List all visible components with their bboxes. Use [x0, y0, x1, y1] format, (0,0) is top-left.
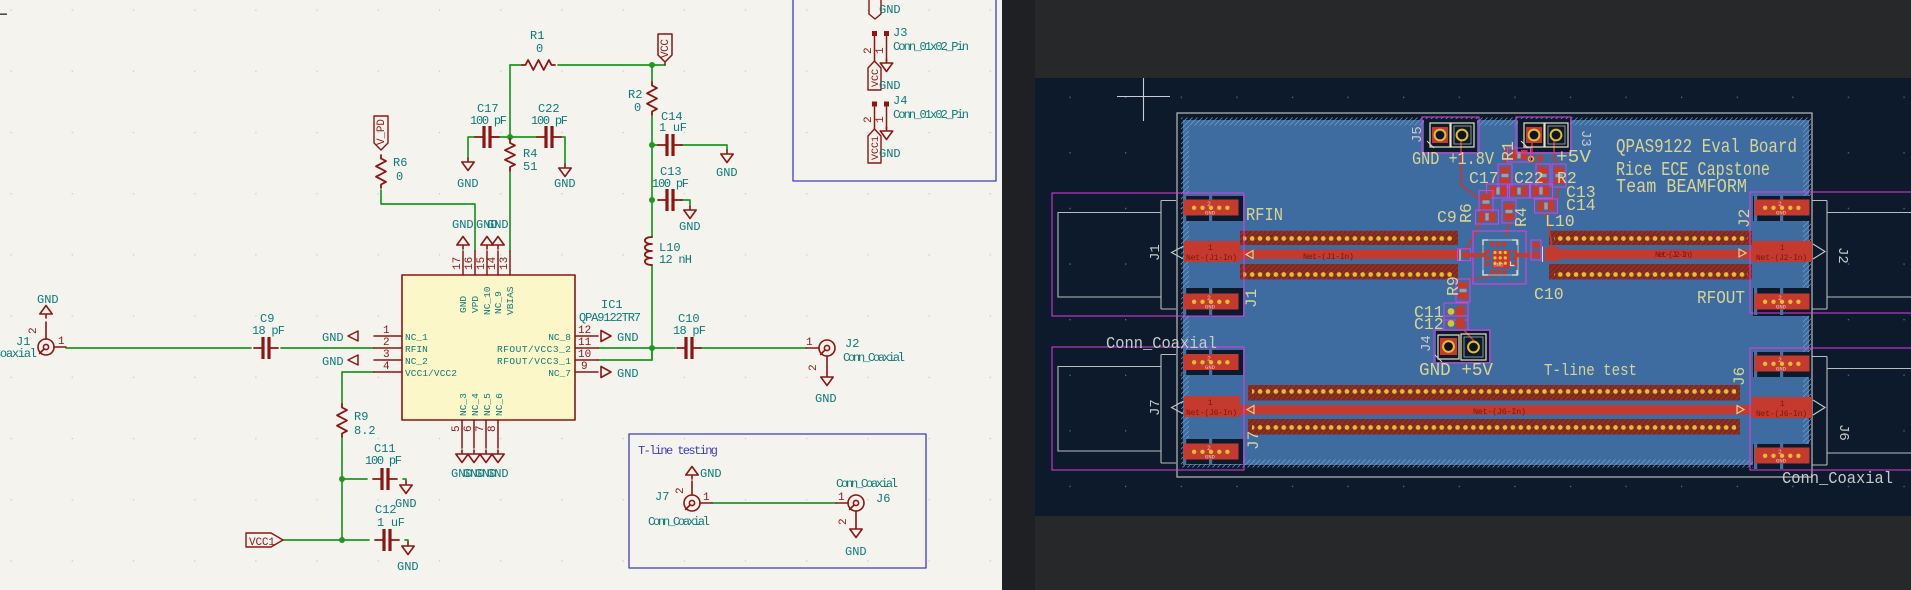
zone cutout J1 top pad [1185, 196, 1243, 221]
trace R4 to IC [1506, 220, 1509, 236]
footprint R6 [1479, 191, 1493, 214]
connector J1 [38, 339, 54, 355]
silk triangle marker T-line right [1737, 406, 1744, 414]
zone cutout J2 top pad [1753, 196, 1811, 221]
svg-text:J7: J7 [1148, 399, 1164, 416]
svg-text:J7: J7 [1245, 431, 1263, 450]
pcb bottom gray band [1035, 516, 1911, 590]
T-line via band bottom [1248, 419, 1740, 435]
wire J7 to J6 in T-line box [712, 502, 836, 504]
connector J1 signal pad [1184, 241, 1240, 262]
capacitor C10 [677, 337, 701, 359]
central IC courtyard [1473, 231, 1526, 284]
resistor R9 [337, 404, 347, 437]
junction node L10/RFOUT/C10 [649, 345, 655, 351]
svg-text:C12: C12 [1414, 315, 1444, 334]
central IC outline [1483, 240, 1518, 275]
footprint C12 [1444, 316, 1468, 330]
svg-text:GND +5V: GND +5V [1419, 361, 1493, 381]
IC output pad2 [1545, 247, 1559, 261]
IC U1 body [402, 275, 575, 420]
svg-text:L10: L10 [1545, 212, 1575, 231]
svg-text:GND: GND [458, 296, 469, 313]
svg-text:J1: J1 [1148, 244, 1164, 261]
svg-text:R6: R6 [393, 156, 407, 170]
svg-text:10: 10 [578, 349, 591, 361]
wire C12 to GND [405, 540, 408, 542]
svg-text:NC_1: NC_1 [405, 332, 428, 343]
svg-text:GND: GND [879, 3, 901, 17]
svg-text:C12: C12 [375, 503, 397, 517]
svg-text:GND +1.8V: GND +1.8V [1412, 150, 1494, 170]
IC input pad [1462, 252, 1469, 258]
wire pin11/pin10 RFOUT to C10 and J2 [598, 348, 806, 360]
RF line left via band bottom [1240, 264, 1458, 279]
svg-text:GND: GND [554, 177, 576, 191]
svg-text:J2: J2 [1834, 247, 1850, 264]
ground at C12 [402, 542, 414, 555]
svg-text:100 pF: 100 pF [531, 114, 568, 128]
wire R2 to C14 to C13 to L10 [652, 116, 727, 360]
svg-text:J3: J3 [1577, 130, 1593, 147]
svg-text:8.2: 8.2 [354, 424, 376, 438]
inductor L10 [645, 237, 652, 265]
RF line left via band top [1240, 231, 1458, 245]
svg-text:C9: C9 [1437, 208, 1457, 227]
connector J6 boss outline [1812, 357, 1911, 466]
connector J3 [875, 36, 887, 61]
svg-text:Conn_Coaxial: Conn_Coaxial [1782, 470, 1893, 489]
connector J7 boss outline [1058, 355, 1176, 464]
svg-text:GND: GND [322, 355, 344, 369]
svg-text:GND: GND [452, 218, 474, 232]
svg-text:Net-(J1-In): Net-(J1-In) [1303, 252, 1354, 262]
svg-text:GND: GND [679, 220, 701, 234]
svg-text:R1: R1 [530, 29, 544, 43]
connector J6 [848, 495, 864, 511]
connector J2 pads [1754, 194, 1810, 221]
svg-text:Conn_Coaxial: Conn_Coaxial [0, 347, 37, 361]
svg-text:GND: GND [815, 392, 837, 406]
IC bottom pins 5-8 [462, 420, 498, 448]
svg-text:RFIN: RFIN [1246, 206, 1283, 226]
svg-text:GND: GND [879, 79, 901, 93]
connector J7 courtyard [1052, 347, 1244, 470]
power flag VCC [658, 34, 672, 65]
svg-text:16: 16 [464, 257, 476, 270]
svg-text:J6: J6 [1835, 424, 1851, 441]
footprint C9 [1476, 210, 1499, 224]
svg-text:VPD: VPD [470, 296, 481, 313]
svg-text:J7: J7 [655, 490, 669, 504]
svg-text:R9: R9 [1444, 276, 1463, 296]
wire V_PD / R6 to VPD pin16 [381, 190, 475, 251]
wire pin4 VCC1/VCC2 to R9 to C11 C12 [283, 372, 374, 540]
svg-text:RFOUT/VCC3_2: RFOUT/VCC3_2 [497, 344, 571, 355]
svg-text:Conn_Coaxial: Conn_Coaxial [648, 515, 710, 529]
svg-text:C22: C22 [1514, 169, 1544, 188]
svg-text:18 pF: 18 pF [673, 324, 706, 338]
svg-text:GND: GND [1494, 262, 1505, 269]
connector J4 pin1 silk chamfer [1435, 355, 1442, 362]
IC left pins 1-4 [374, 336, 402, 372]
ground below J6 [850, 525, 862, 538]
junction node R1/C17/C22/R4 [507, 134, 513, 140]
svg-text:0: 0 [536, 42, 543, 56]
svg-text:R4: R4 [523, 147, 537, 161]
svg-text:Net-(J2-In): Net-(J2-In) [1655, 250, 1693, 260]
capacitor C11 [373, 468, 397, 490]
copper zone fill [1183, 120, 1809, 465]
resistor R6 [376, 155, 386, 188]
svg-text:Team BEAMFORM: Team BEAMFORM [1616, 176, 1747, 198]
footprint L10b [1535, 199, 1558, 213]
svg-text:NC_2: NC_2 [405, 356, 428, 367]
RF line right via band top [1549, 231, 1752, 245]
RF line right center trace [1552, 250, 1752, 260]
svg-text:Conn_Coaxial: Conn_Coaxial [836, 477, 898, 491]
trace C9 to RF line [1466, 222, 1481, 250]
svg-text:J4: J4 [1419, 335, 1435, 352]
svg-text:J5: J5 [1410, 126, 1426, 143]
svg-text:J3: J3 [893, 26, 907, 40]
connector J1 pads [1183, 194, 1239, 221]
ground below J2 [821, 373, 833, 386]
ground under C17 [462, 158, 474, 171]
svg-text:GND: GND [879, 147, 901, 161]
footprint C13 [1487, 184, 1510, 198]
IC output silk tick [1542, 247, 1544, 263]
cursor crosshair [1117, 78, 1170, 121]
ground arrows above pins 17,15,14 [457, 237, 469, 250]
svg-text:R2: R2 [628, 88, 642, 102]
ground under J3 pin1 [880, 59, 892, 72]
connector J7 signal pad [1184, 396, 1240, 417]
svg-text:V_PD: V_PD [376, 119, 388, 145]
svg-text:VBIAS: VBIAS [505, 286, 516, 315]
IC input courtyard [1458, 249, 1471, 261]
footprint R2 [1552, 164, 1566, 187]
svg-text:2: 2 [808, 364, 820, 371]
connector J7 fab bracket [1172, 401, 1184, 413]
zone cutout J6 bottom pad [1753, 444, 1811, 472]
RF line right via band bottom [1549, 264, 1752, 279]
svg-text:J6: J6 [1731, 367, 1749, 386]
svg-text:J4: J4 [893, 94, 907, 108]
svg-text:QPA9122TR7: QPA9122TR7 [579, 311, 641, 325]
svg-text:1: 1 [383, 325, 390, 337]
zone cutout J7 top pad [1185, 350, 1243, 375]
svg-text:J2: J2 [845, 337, 859, 351]
svg-text:Net-(J6-In): Net-(J6-In) [1756, 410, 1807, 419]
T-line center trace [1240, 405, 1752, 415]
ground above J7 [686, 467, 698, 480]
svg-text:1 uF: 1 uF [659, 121, 687, 135]
zone cutout J2 bottom pad [1753, 288, 1811, 316]
svg-text:RFIN: RFIN [405, 344, 428, 355]
svg-text:C17: C17 [1469, 169, 1499, 188]
svg-text:VCC1: VCC1 [249, 537, 275, 549]
board edge outline [1177, 113, 1812, 477]
trace J5 to C9/R6 [1461, 140, 1484, 202]
power flag VCC1 under J4 [868, 129, 881, 163]
connector J3 pad1 [1524, 123, 1544, 147]
T-line via band top [1248, 385, 1740, 401]
T-line via dots top [1252, 389, 1736, 398]
zone cutout J1 bottom pad [1185, 288, 1243, 316]
svg-text:7: 7 [475, 425, 487, 432]
ground at C11 [400, 481, 412, 494]
svg-text:Conn_Coaxial: Conn_Coaxial [843, 351, 905, 365]
T-line via dots bottom [1252, 423, 1736, 432]
svg-text:Conn_01x02_Pin: Conn_01x02_Pin [893, 108, 969, 122]
svg-text:1: 1 [1208, 399, 1213, 408]
svg-text:Net-(J2-In): Net-(J2-In) [1756, 254, 1807, 263]
svg-text:J6: J6 [876, 492, 890, 506]
T-line testing box [629, 434, 926, 568]
svg-text:1 uF: 1 uF [377, 516, 405, 530]
silk triangle marker right [1739, 249, 1746, 257]
window divider strip [1002, 0, 1035, 590]
footprint R9 [1456, 279, 1470, 302]
wire R1 net: drop to C17/C22 junction and VBIAS [492, 65, 537, 137]
connector J6 courtyard [1750, 348, 1911, 470]
connector J4 pad1 [1438, 335, 1459, 359]
svg-text:14: 14 [487, 256, 499, 270]
svg-text:QPAS9122 Eval Board: QPAS9122 Eval Board [1616, 136, 1797, 158]
resistor R1 [522, 60, 555, 70]
ground under C22 [559, 164, 571, 177]
trace IC to R9 [1468, 277, 1490, 280]
svg-text:Net-(J6-In): Net-(J6-In) [1186, 409, 1237, 418]
svg-text:NC_4: NC_4 [470, 393, 481, 416]
footprint C21 between IC and C10 stub [1531, 240, 1541, 260]
svg-text:R6: R6 [1457, 203, 1476, 223]
pcb navy canvas [1035, 78, 1911, 516]
connector J4 pad2 [1461, 334, 1486, 360]
ground at C14 [721, 150, 733, 163]
svg-text:2: 2 [675, 487, 687, 494]
svg-text:3: 3 [383, 349, 390, 361]
wire J1 to C9 to IC pin2 RFIN [66, 347, 374, 349]
junction node R2/C14 [649, 142, 655, 148]
schematic canvas background [0, 0, 1002, 590]
IC right pins 12-9 [575, 336, 598, 372]
connector J2 signal pad [1752, 241, 1812, 262]
zone cutout J3 [1518, 119, 1570, 152]
svg-text:GND: GND [716, 166, 738, 180]
svg-text:RFOUT: RFOUT [1697, 289, 1745, 309]
connector J2 boss outline [1812, 201, 1911, 310]
connector J2 [819, 340, 835, 356]
svg-text:4: 4 [383, 361, 390, 373]
connector J1 courtyard [1052, 193, 1244, 316]
svg-text:1: 1 [838, 492, 845, 504]
resistor R2 [647, 82, 657, 115]
svg-text:R1: R1 [1499, 141, 1518, 161]
IC input silk tick [1459, 250, 1461, 261]
capacitor C9 [254, 337, 278, 359]
central IC side pads [1485, 242, 1518, 275]
svg-text:RFOUT/VCC3_1: RFOUT/VCC3_1 [497, 356, 571, 367]
central IC pin1 L mark [1511, 262, 1515, 266]
svg-text:2: 2 [28, 327, 40, 334]
ground at C13 [684, 206, 696, 219]
svg-text:GND: GND [322, 331, 344, 345]
zone cutout J7 bottom pad [1185, 439, 1243, 464]
capacitor C17 [475, 126, 499, 148]
junction node R9/C11 [339, 476, 345, 482]
IC output trace [1516, 253, 1532, 257]
svg-text:2: 2 [383, 337, 390, 349]
svg-text:Net-(J1-In): Net-(J1-In) [1186, 254, 1237, 263]
svg-text:12 nH: 12 nH [659, 253, 692, 267]
connector J3 pad2 [1545, 123, 1568, 147]
via near R1 b [1537, 155, 1544, 162]
trace J3 pad2 to R2 [1554, 140, 1558, 164]
svg-text:1: 1 [806, 337, 813, 349]
via near R1 [1529, 157, 1534, 162]
junction node VCC1/C12 [339, 537, 345, 543]
svg-text:NC_7: NC_7 [548, 368, 571, 379]
silk triangle marker left [1246, 251, 1253, 259]
resistor R4 [505, 139, 515, 171]
IC top pins 17-13 [463, 251, 510, 275]
svg-text:6: 6 [463, 425, 475, 432]
svg-text:51: 51 [523, 160, 537, 174]
connector J7 pads [1183, 349, 1239, 376]
net label V_PD remnant top [869, 0, 881, 19]
trace R9 to C11 C12 J4 [1460, 300, 1474, 341]
svg-text:1: 1 [1780, 400, 1785, 409]
footprint L10 [1530, 184, 1553, 198]
svg-text:+5V: +5V [1556, 148, 1591, 168]
footprint C17 [1498, 164, 1512, 187]
svg-text:T-line test: T-line test [1544, 362, 1637, 381]
connector J5 pad2 [1451, 123, 1474, 147]
capacitor C13 [658, 189, 682, 211]
zone cutout J4 [1436, 331, 1489, 362]
connector J5 courtyard [1422, 117, 1479, 153]
RF line right via dots [1554, 234, 1748, 243]
trace C17 R1 net [1505, 145, 1558, 203]
trace J3 pad1 to C22 [1532, 140, 1543, 168]
svg-text:J1: J1 [1243, 289, 1261, 308]
connector J1 boss outline [1058, 201, 1176, 310]
svg-text:C10: C10 [1534, 285, 1564, 304]
svg-text:100 pF: 100 pF [652, 177, 689, 191]
footprint C11 [1444, 303, 1468, 320]
junction node C14/C13 [649, 197, 655, 203]
J3/J4 sheet box [793, 0, 996, 181]
capacitor C12 [375, 529, 399, 551]
RF line left center trace [1240, 250, 1459, 260]
svg-text:GND: GND [617, 367, 639, 381]
svg-text:GND: GND [487, 218, 509, 232]
connector J1 fab bracket [1172, 246, 1184, 258]
svg-text:NC_9: NC_9 [493, 291, 504, 314]
svg-text:J2: J2 [1736, 209, 1754, 228]
svg-text:2: 2 [863, 47, 875, 54]
ground above J1 [40, 306, 52, 319]
port GND at pin12 [601, 331, 611, 342]
wire VCC node to R2 [510, 65, 665, 251]
footprint R1 [1508, 148, 1531, 162]
svg-text:NC_3: NC_3 [458, 393, 469, 416]
ground under J4 pin1 [880, 127, 892, 140]
svg-text:R9: R9 [354, 410, 368, 424]
svg-text:NC_6: NC_6 [494, 393, 505, 416]
capacitor C22 [537, 126, 561, 148]
sheet frame remnant top-left [0, 13, 7, 15]
connector J3 pin1 silk chamfer [1521, 141, 1528, 148]
connector J5 pin1 silk chamfer [1427, 141, 1434, 148]
trace L10 to C10 [1546, 212, 1552, 250]
svg-text:1: 1 [703, 492, 710, 504]
svg-text:100 pF: 100 pF [365, 454, 402, 468]
port GND at pin3 [348, 355, 358, 365]
svg-text:0: 0 [396, 170, 403, 184]
svg-text:GND: GND [617, 331, 639, 345]
zone cutout J6 top pad [1753, 352, 1811, 377]
connector J3 courtyard [1516, 117, 1571, 153]
central IC thermal vias [1493, 251, 1507, 265]
svg-text:17: 17 [452, 257, 464, 270]
svg-text:13: 13 [499, 257, 511, 270]
svg-text:Net-(J6-In): Net-(J6-In) [1473, 407, 1526, 417]
central IC silk corners [1483, 240, 1517, 275]
ground arrows below pins 5-8 [456, 450, 468, 463]
pcb top gray band [1035, 0, 1911, 78]
connector J6 pads [1754, 350, 1810, 377]
connector J6 fab bracket [1813, 400, 1825, 415]
svg-text:Conn_01x02_Pin: Conn_01x02_Pin [893, 40, 969, 54]
RF line left via dots [1243, 234, 1452, 243]
connector J4 [875, 107, 887, 129]
svg-text:1: 1 [58, 336, 65, 348]
svg-text:1: 1 [1208, 244, 1213, 253]
svg-text:9: 9 [581, 361, 588, 373]
svg-text:GND: GND [457, 177, 479, 191]
svg-text:18 pF: 18 pF [252, 324, 285, 338]
svg-text:GND: GND [395, 497, 417, 511]
footprint R4 [1502, 200, 1516, 223]
IC input trace [1468, 253, 1486, 257]
svg-text:12: 12 [578, 325, 591, 337]
silk triangle marker T-line left [1247, 406, 1254, 414]
svg-text:100 pF: 100 pF [470, 114, 507, 128]
central IC center pad [1493, 250, 1511, 269]
svg-text:0: 0 [634, 101, 641, 115]
port GND at pin1 [348, 331, 358, 341]
wire C11 to GND [403, 479, 406, 481]
junction node VCC/R1/R2 [649, 62, 655, 68]
svg-text:5: 5 [451, 425, 463, 432]
svg-text:1: 1 [875, 116, 887, 123]
connector J2 courtyard [1750, 192, 1911, 313]
svg-text:IC1: IC1 [601, 298, 623, 312]
svg-text:R4: R4 [1512, 207, 1531, 227]
zone cutout J5 [1424, 119, 1477, 152]
footprint C22 [1536, 164, 1550, 187]
footprint C14 [1508, 184, 1531, 198]
zone hatched border [1181, 118, 1811, 468]
wire C22 right to GND [561, 137, 565, 164]
power flag VCC under J3 [868, 61, 881, 90]
svg-text:VCC: VCC [660, 39, 672, 58]
svg-text:GND: GND [700, 467, 722, 481]
port GND at pin9 [601, 367, 611, 378]
